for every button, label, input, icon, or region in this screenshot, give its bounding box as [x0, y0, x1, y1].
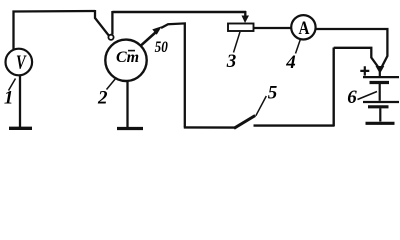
switch lever 5: [234, 116, 255, 129]
wire top-left rail: [14, 11, 96, 49]
node terminal small circle: [108, 35, 113, 40]
terminal bar under voltmeter: [9, 127, 32, 130]
stabilizer Cт circle: [105, 40, 146, 81]
wire voltmeter bottom: [19, 76, 21, 127]
wire top rail to rheostat: [112, 11, 246, 13]
plus sign: [360, 66, 369, 75]
ammeter A: [291, 15, 315, 39]
svg-text:6: 6: [347, 87, 357, 108]
wire ammeter to battery top: [316, 29, 387, 67]
label 3: [234, 32, 241, 53]
label 6: [358, 92, 378, 100]
rheostat slider arrow down: [244, 11, 246, 18]
svg-text:3: 3: [226, 51, 237, 72]
wire vertical from top rail to terminal: [111, 11, 113, 34]
label 1: [9, 79, 16, 91]
svg-text:5: 5: [268, 83, 278, 104]
voltmeter V: [5, 49, 32, 76]
wire from slider to bottom rail: [161, 23, 185, 127]
slider arrow of stabilizer: [140, 32, 156, 46]
svg-text:1: 1: [4, 88, 14, 109]
junction blob battery top: [376, 66, 385, 74]
battery plate short 1: [370, 81, 390, 84]
wire stabilizer bottom: [126, 82, 128, 128]
label 5: [256, 96, 266, 116]
wire bottom rail left: [184, 126, 235, 129]
resistor box 3: [228, 24, 254, 32]
battery plate short 2: [368, 105, 389, 108]
wire between cells: [379, 84, 381, 101]
label 2: [107, 78, 117, 90]
terminal bar battery bottom: [366, 122, 395, 125]
label 4: [296, 39, 301, 54]
svg-text:A: A: [299, 18, 310, 39]
svg-text:2: 2: [97, 88, 108, 109]
svg-text:Cm: Cm: [116, 49, 139, 66]
wire battery bottom: [379, 108, 381, 121]
wire right loop vertical: [333, 48, 335, 127]
svg-text:V: V: [16, 52, 27, 74]
wire drop and diagonal to terminal: [95, 10, 109, 36]
svg-text:50: 50: [155, 39, 168, 56]
svg-text:4: 4: [285, 52, 296, 73]
wire bottom rail right: [254, 124, 335, 126]
wire right loop top: [334, 48, 378, 67]
battery 6 plate long 1: [363, 76, 399, 78]
battery plate long 2: [363, 101, 399, 103]
terminal bar under stabilizer: [117, 127, 143, 130]
wire box to ammeter: [254, 27, 292, 29]
